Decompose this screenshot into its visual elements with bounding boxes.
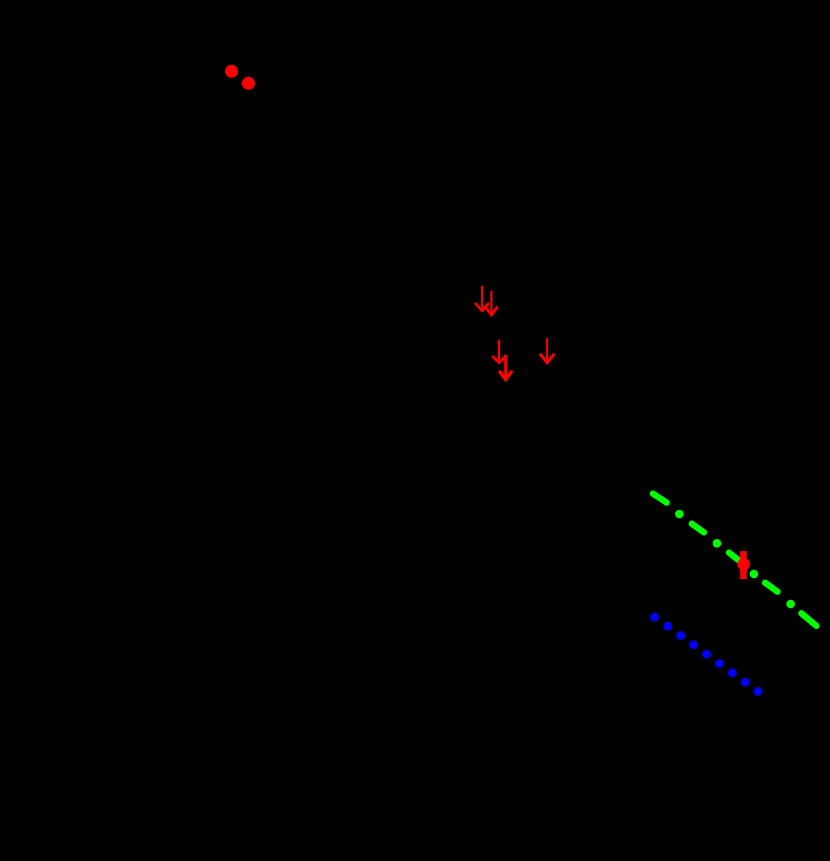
green dash-dot model line [653, 494, 817, 626]
red upper-limit arrow D [499, 355, 512, 380]
red data point 2 [242, 77, 255, 90]
red point with error bar [737, 551, 750, 579]
red data point 1 [225, 65, 238, 78]
red upper-limit arrow E [540, 338, 554, 363]
red upper-limit arrow C [492, 340, 505, 363]
red upper-limit arrow B [485, 291, 497, 315]
blue dotted model line [650, 613, 762, 696]
red upper-limit arrow A [475, 286, 489, 311]
